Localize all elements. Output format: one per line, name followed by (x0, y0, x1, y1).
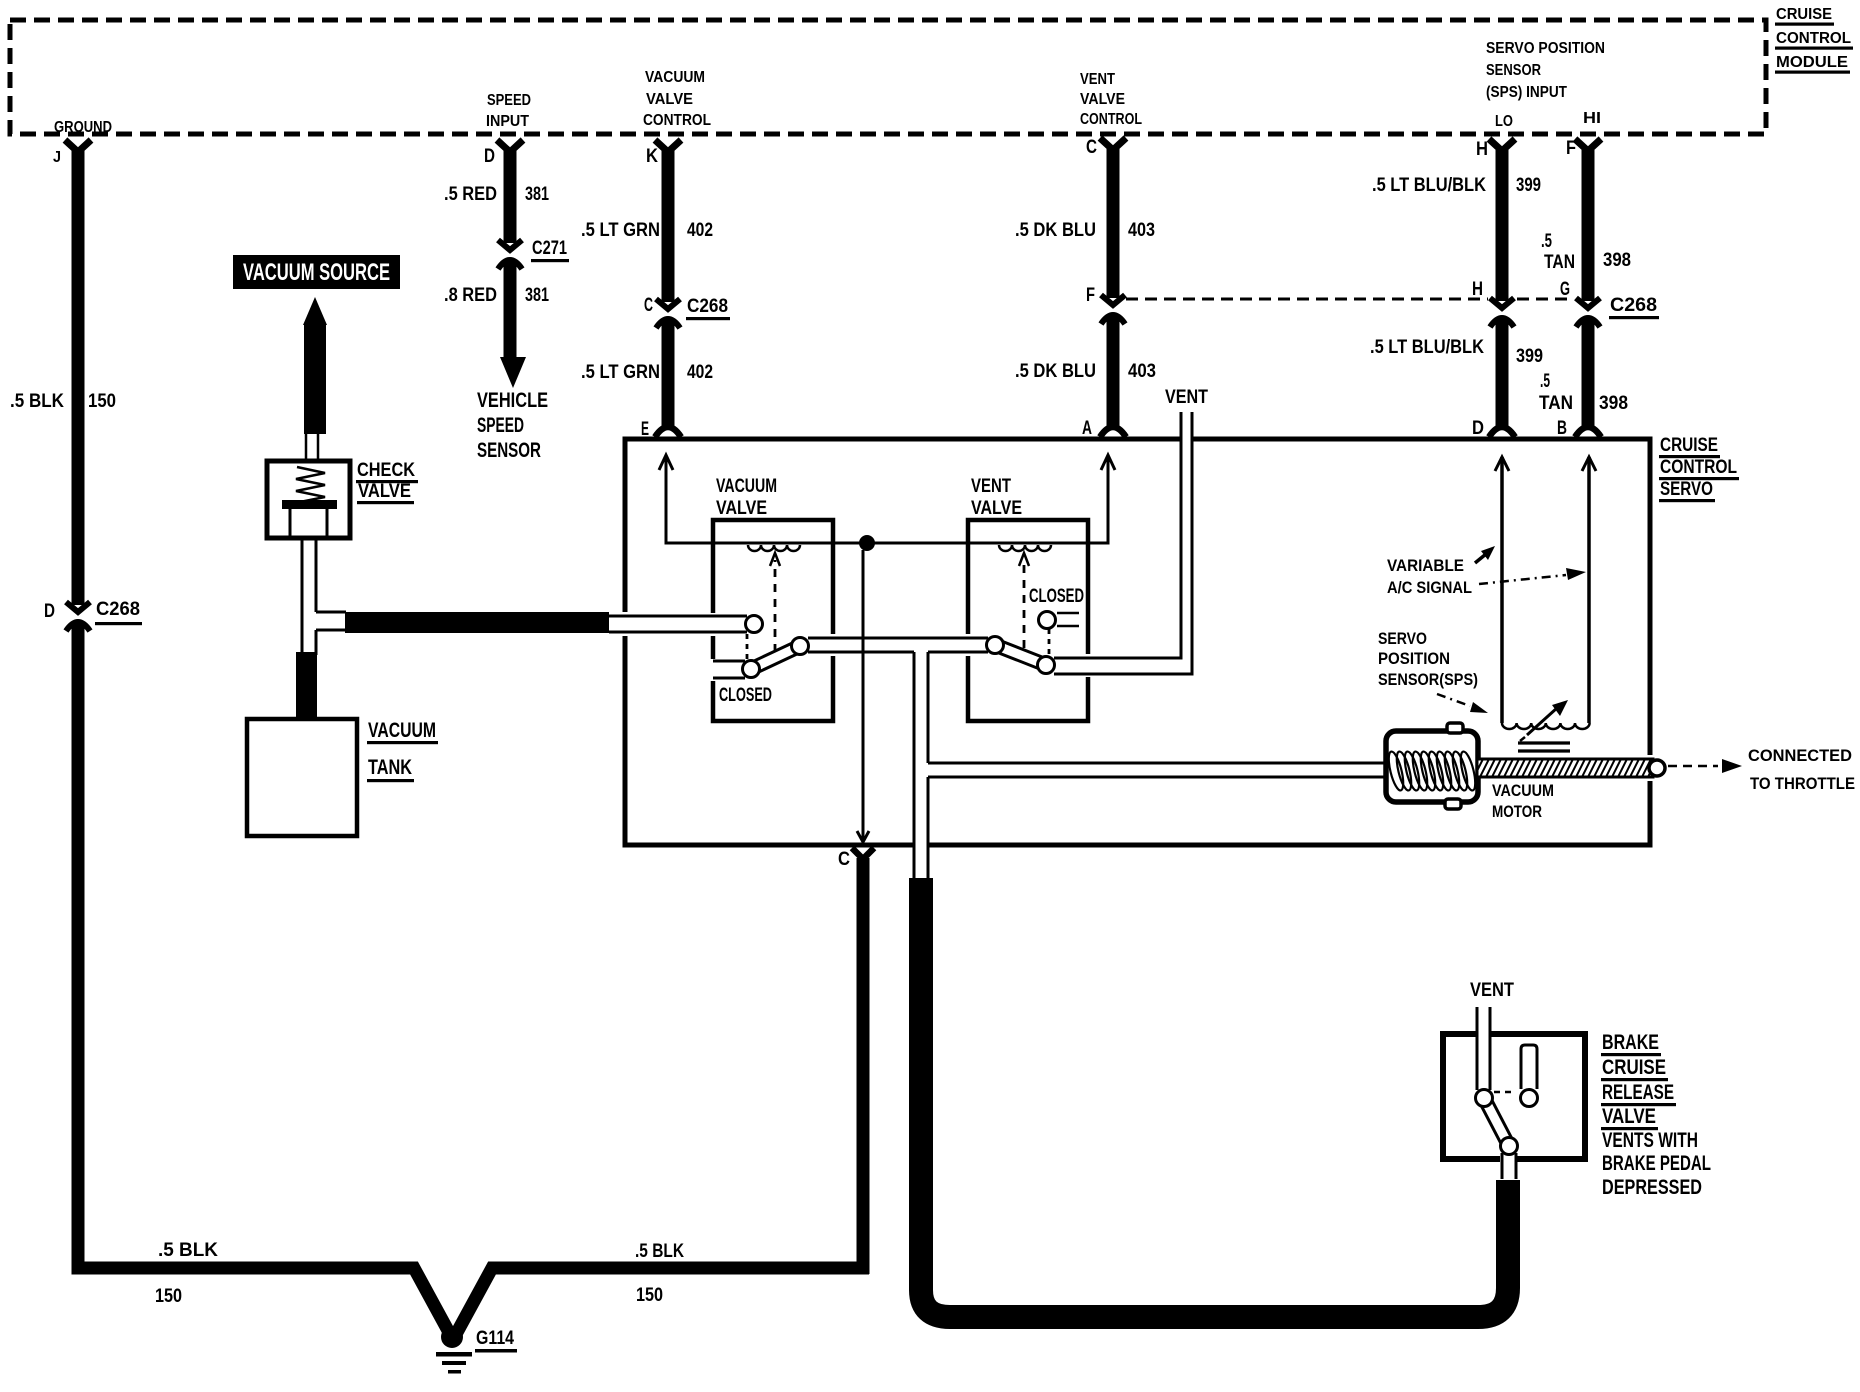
pin C connector below servo (838, 848, 874, 870)
svg-text:MOTOR: MOTOR (1492, 802, 1542, 821)
svg-text:VEHICLE: VEHICLE (477, 389, 548, 412)
vent valve armature circle lower (1038, 657, 1055, 674)
wire vacuum valve control .5 LT GRN 402 upper (581, 150, 713, 302)
svg-text:(SPS) INPUT: (SPS) INPUT (1486, 84, 1567, 101)
svg-text:VACUUM: VACUUM (1492, 781, 1554, 800)
wire vacuum valve control .5 LT GRN 402 lower (581, 320, 713, 428)
svg-text:CONTROL: CONTROL (643, 112, 711, 129)
wire G114 right branch (455, 1268, 869, 1336)
brake valve armature circle lower (1501, 1138, 1518, 1155)
ground G114 symbol (436, 1326, 517, 1374)
connector pin F inline (1086, 285, 1125, 324)
svg-text:K: K (646, 146, 658, 167)
check valve plate (282, 500, 337, 509)
svg-text:LO: LO (1495, 113, 1513, 130)
brake valve exit pipe (1502, 1153, 1516, 1179)
svg-text:.5 DK BLU: .5 DK BLU (1015, 220, 1096, 241)
brake valve vent pipe (1477, 1007, 1490, 1090)
pin D connector (484, 140, 523, 167)
svg-text:CLOSED: CLOSED (719, 685, 772, 706)
svg-text:C268: C268 (96, 599, 140, 620)
svg-text:G114: G114 (476, 1328, 514, 1349)
vent valve label (971, 476, 1022, 519)
wire speed input .5 RED 381 upper (444, 150, 549, 243)
svg-text:INPUT: INPUT (486, 113, 529, 130)
pin C connector (1086, 137, 1126, 158)
svg-text:399: 399 (1516, 346, 1543, 367)
svg-text:CONTROL: CONTROL (1080, 111, 1142, 128)
label BRAKE CRUISE RELEASE VALVE VENTS WITH BRAKE PEDAL DEPRESSED (1601, 1031, 1711, 1199)
gap in servo box right edge for rod (1643, 755, 1657, 781)
svg-text:.5 BLK: .5 BLK (10, 391, 64, 412)
svg-text:C268: C268 (687, 296, 728, 317)
svg-text:TAN: TAN (1539, 393, 1573, 414)
brake valve armature bar (1479, 1095, 1515, 1149)
svg-text:VENTS WITH: VENTS WITH (1602, 1129, 1698, 1152)
label VARIABLE A/C SIGNAL (1387, 556, 1472, 597)
vent valve fixed contact (1029, 586, 1084, 629)
svg-text:SENSOR: SENSOR (477, 439, 541, 462)
label SERVO POSITION SENSOR(SPS) (1378, 629, 1478, 689)
svg-text:C271: C271 (532, 238, 567, 259)
check valve legs (290, 509, 327, 536)
vacuum valve label (716, 476, 777, 519)
pin A cup at servo (1082, 418, 1126, 439)
label VACUUM VALVE CONTROL (643, 69, 711, 129)
svg-text:.8 RED: .8 RED (444, 285, 497, 306)
svg-text:CRUISE: CRUISE (1602, 1056, 1666, 1079)
svg-text:H: H (1476, 139, 1488, 160)
svg-text:VACUUM: VACUUM (716, 476, 777, 497)
svg-text:150: 150 (155, 1286, 182, 1307)
vacuum valve port circle upper (746, 616, 763, 633)
svg-text:C: C (1086, 137, 1097, 158)
gap in valve box bottom for pipe (1500, 1152, 1517, 1165)
arrowhead at A (1101, 455, 1115, 470)
svg-text:VACUUM: VACUUM (368, 719, 436, 742)
pipe from vacuum hose into vacuum valve (609, 616, 747, 632)
wire SPS LO .5 LT BLU/BLK 399 lower (1370, 319, 1543, 428)
svg-text:TO THROTTLE: TO THROTTLE (1750, 774, 1855, 793)
svg-text:B: B (1557, 418, 1567, 439)
connector pin G inline C268 (1560, 279, 1659, 327)
svg-text:CHECK: CHECK (357, 460, 415, 481)
junction node dot (859, 535, 875, 551)
pipe tee branch to servo (316, 612, 346, 630)
vacuum hose to servo (345, 612, 609, 633)
pipe from vent valve to vent stack (1054, 412, 1192, 674)
svg-text:D: D (1472, 418, 1484, 439)
svg-text:F: F (1566, 138, 1576, 159)
pin E cup at servo (641, 419, 681, 440)
svg-text:150: 150 (636, 1285, 663, 1306)
brake valve stub circle (1521, 1090, 1538, 1107)
gap in servo box left edge for pipe (618, 612, 632, 636)
svg-text:RELEASE: RELEASE (1602, 1081, 1674, 1104)
vacuum valve box (713, 520, 833, 721)
svg-text:SPEED: SPEED (487, 92, 531, 109)
svg-text:CONTROL: CONTROL (1660, 457, 1737, 478)
svg-text:C: C (644, 295, 653, 316)
svg-text:TANK: TANK (368, 756, 412, 779)
cruise control module dashed box (10, 20, 1766, 134)
svg-text:A/C SIGNAL: A/C SIGNAL (1387, 578, 1472, 597)
pipe check valve down to tee (302, 538, 316, 655)
vacuum valve coil dashed link (770, 553, 780, 652)
wire SPS HI .5 TAN 398 lower (1539, 319, 1628, 428)
svg-text:.5 LT BLU/BLK: .5 LT BLU/BLK (1370, 337, 1484, 358)
svg-text:.5: .5 (1541, 231, 1552, 252)
svg-text:.5: .5 (1540, 371, 1550, 392)
cruise control servo box (625, 439, 1650, 845)
SPS wire D inside servo (1495, 457, 1509, 723)
svg-text:.5 BLK: .5 BLK (635, 1241, 684, 1262)
vacuum valve armature pivot circle (792, 638, 809, 655)
vacuum tank label (367, 719, 438, 782)
svg-text:.5 LT GRN: .5 LT GRN (581, 220, 660, 241)
svg-text:CRUISE: CRUISE (1776, 6, 1832, 23)
vent valve plunger dashed link (1048, 629, 1051, 656)
connector C268 pin C (644, 295, 730, 328)
variable signal arrow to D line (1475, 546, 1495, 563)
svg-text:SPEED: SPEED (477, 414, 524, 437)
ground wire lower run to G114 (78, 623, 451, 1336)
svg-text:VALVE: VALVE (971, 498, 1022, 519)
connector pin H inline (1472, 279, 1514, 327)
hose segment to vacuum tank (296, 652, 317, 717)
svg-text:SENSOR(SPS): SENSOR(SPS) (1378, 670, 1478, 689)
cruise control module title (1775, 6, 1853, 74)
vacuum source arrow (303, 297, 327, 325)
svg-text:A: A (1082, 418, 1092, 439)
pin H connector (1476, 139, 1515, 160)
svg-text:D: D (44, 601, 55, 622)
pin D cup at servo (1472, 418, 1515, 439)
wire SPS LO .5 LT BLU/BLK 399 upper (1372, 150, 1541, 301)
SPS resistive element (1502, 723, 1590, 729)
svg-text:399: 399 (1516, 175, 1541, 196)
svg-text:CONNECTED: CONNECTED (1748, 746, 1852, 765)
pin F connector (1566, 138, 1601, 159)
svg-text:VALVE: VALVE (1602, 1105, 1656, 1128)
wire SPS HI .5 TAN 398 upper (1541, 150, 1631, 301)
svg-text:402: 402 (687, 220, 713, 241)
label VEHICLE SPEED SENSOR (477, 389, 548, 462)
label .5 BLK 150 right of G114 (635, 1241, 684, 1306)
svg-text:VALVE: VALVE (358, 481, 411, 502)
tee pipe down through servo box (914, 652, 928, 880)
wire vent valve control .5 DK BLU 403 lower (1015, 316, 1156, 428)
vent valve box (968, 520, 1088, 721)
vent valve coil dashed link (1019, 553, 1029, 648)
vacuum hose servo to brake release valve (921, 878, 1508, 1317)
variable signal dash-dot arrow to B line (1479, 568, 1586, 584)
dashed link F to H to G (1126, 298, 1573, 301)
wire speed input .8 RED 381 lower (444, 262, 549, 357)
svg-text:398: 398 (1603, 250, 1631, 271)
svg-text:H: H (1472, 279, 1483, 300)
vacuum tank box (247, 719, 357, 836)
svg-text:VENT: VENT (971, 476, 1011, 497)
svg-text:.5 LT BLU/BLK: .5 LT BLU/BLK (1372, 175, 1486, 196)
check valve box (267, 461, 350, 538)
svg-text:F: F (1086, 285, 1095, 306)
vacuum valve closed port pipe (713, 661, 772, 706)
vacuum valve port circle closed (743, 661, 760, 678)
svg-text:VACUUM: VACUUM (645, 69, 705, 86)
svg-text:.5 LT GRN: .5 LT GRN (581, 362, 660, 383)
svg-text:402: 402 (687, 362, 713, 383)
label SERVO POSITION SENSOR (SPS) INPUT (1486, 40, 1605, 130)
svg-text:403: 403 (1128, 220, 1155, 241)
svg-text:.5 BLK: .5 BLK (158, 1240, 218, 1261)
svg-text:J: J (53, 149, 61, 166)
svg-text:VACUUM SOURCE: VACUUM SOURCE (243, 259, 390, 286)
svg-text:C268: C268 (1610, 295, 1657, 316)
brake release valve box (1443, 1034, 1585, 1159)
svg-text:VENT: VENT (1080, 71, 1115, 88)
SPS base lines (1518, 743, 1570, 751)
SPS wire B inside servo (1582, 457, 1596, 723)
vent valve port circle left (987, 637, 1004, 654)
svg-text:SERVO POSITION: SERVO POSITION (1486, 40, 1605, 57)
dashed link to throttle (1668, 759, 1742, 773)
svg-text:VALVE: VALVE (646, 91, 693, 108)
brake valve dashed link (1494, 1091, 1516, 1094)
SPS pointer dash-dot arrow (1437, 694, 1488, 713)
gaps in valve box edges for pipes (709, 613, 717, 636)
wire E to A inside servo (666, 457, 1108, 543)
vent valve armature bar (993, 639, 1048, 670)
pipe branch to vacuum motor (928, 763, 1388, 777)
gap in servo box top edge for vent pipe (1182, 433, 1192, 445)
svg-text:DEPRESSED: DEPRESSED (1602, 1176, 1702, 1199)
svg-text:SERVO: SERVO (1660, 479, 1713, 500)
svg-text:SENSOR: SENSOR (1486, 62, 1541, 79)
svg-text:BRAKE: BRAKE (1602, 1031, 1659, 1054)
svg-text:C: C (838, 849, 850, 870)
svg-text:POSITION: POSITION (1378, 649, 1450, 668)
connector C268 pin D on ground wire (44, 599, 142, 631)
check valve spring (296, 467, 325, 502)
vacuum valve plunger dashed link (746, 634, 749, 661)
vacuum motor label (1492, 781, 1554, 821)
svg-text:HI: HI (1583, 110, 1601, 127)
vent valve coil (999, 545, 1051, 551)
svg-text:.5 RED: .5 RED (444, 184, 497, 205)
check valve label (356, 460, 418, 504)
gap in valve box top for vent pipe (1476, 1028, 1491, 1040)
pin K connector (646, 140, 681, 167)
wire vent valve control .5 DK BLU 403 upper (1015, 148, 1155, 298)
svg-text:GROUND: GROUND (54, 119, 112, 136)
vacuum motor spring (1386, 750, 1478, 791)
svg-text:TAN: TAN (1544, 252, 1575, 273)
vacuum source hose (304, 324, 326, 434)
svg-text:VENT: VENT (1165, 387, 1208, 408)
svg-text:D: D (484, 146, 495, 167)
label CONNECTED TO THROTTLE (1748, 746, 1855, 793)
SPS wiper arrow (1520, 700, 1568, 741)
pin B cup at servo (1557, 418, 1601, 439)
gap in servo box bottom edge for pipe (915, 838, 927, 852)
wire junction to pin C arrow (857, 550, 869, 842)
label SPEED INPUT (486, 92, 531, 130)
svg-text:MODULE: MODULE (1776, 54, 1848, 71)
pin J connector (53, 140, 91, 166)
cruise control servo title (1659, 435, 1739, 502)
brake valve port circle left (1476, 1090, 1493, 1107)
svg-text:VENT: VENT (1470, 980, 1514, 1001)
throttle rod hatched (1474, 759, 1665, 777)
ground wire upper segment (10, 150, 116, 605)
svg-text:VARIABLE: VARIABLE (1387, 556, 1464, 575)
svg-text:150: 150 (88, 391, 116, 412)
svg-text:403: 403 (1128, 361, 1156, 382)
svg-text:CLOSED: CLOSED (1029, 586, 1084, 607)
vacuum valve armature bar (748, 641, 802, 675)
svg-text:VALVE: VALVE (1080, 91, 1125, 108)
vacuum source label (233, 255, 400, 289)
label .5 BLK 150 left of G114 (155, 1240, 218, 1307)
svg-text:VALVE: VALVE (716, 498, 767, 519)
arrowhead at E (659, 455, 673, 470)
svg-text:.5 DK BLU: .5 DK BLU (1015, 361, 1096, 382)
svg-text:BRAKE PEDAL: BRAKE PEDAL (1602, 1152, 1711, 1175)
wire from servo pin C down to ground bus (857, 858, 870, 1274)
svg-text:381: 381 (525, 184, 549, 205)
svg-text:CRUISE: CRUISE (1660, 435, 1718, 456)
brake valve closed stub port (1521, 1045, 1537, 1089)
svg-text:398: 398 (1599, 393, 1628, 414)
svg-text:CONTROL: CONTROL (1776, 30, 1851, 47)
vacuum valve coil (748, 545, 800, 551)
transfer pipe to vent valve (808, 638, 988, 652)
arrow to vehicle speed sensor (500, 357, 526, 388)
label VENT VALVE CONTROL (1080, 71, 1142, 128)
vacuum motor body (1386, 723, 1478, 809)
connector C271 (498, 238, 569, 269)
svg-text:G: G (1560, 279, 1570, 300)
svg-text:SERVO: SERVO (1378, 629, 1427, 648)
svg-text:381: 381 (525, 285, 549, 306)
pipe hose to check valve (306, 434, 318, 462)
